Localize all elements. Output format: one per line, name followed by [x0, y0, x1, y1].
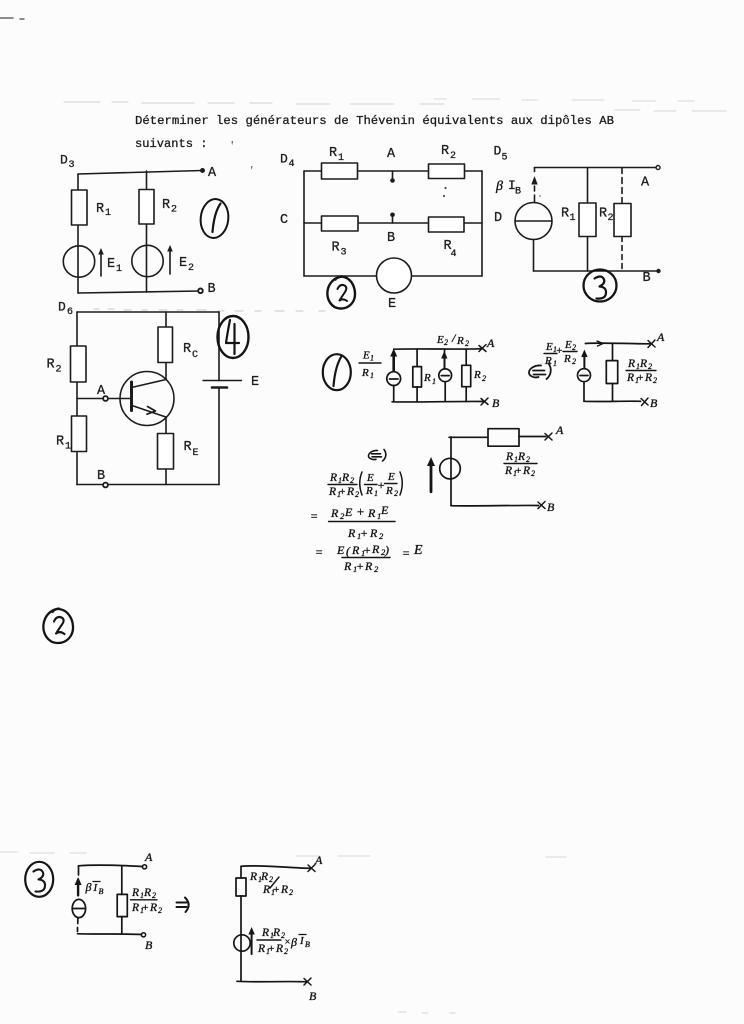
svg-text:+: + — [356, 559, 364, 573]
svg-text:R: R — [473, 369, 481, 381]
svg-text:E: E — [545, 341, 553, 353]
svg-text:+: + — [356, 504, 365, 519]
svg-text:2: 2 — [572, 357, 576, 366]
source circle — [440, 458, 461, 479]
label beta IB — [495, 178, 521, 198]
circled 1 hw — [323, 354, 351, 390]
svg-text:A: A — [387, 147, 396, 162]
svg-text:R: R — [644, 372, 652, 384]
svg-text:R: R — [627, 358, 635, 370]
terminal B — [538, 502, 545, 509]
wire right D4 — [481, 171, 483, 276]
wire top D3 — [78, 171, 202, 175]
wire bottom D4 — [304, 275, 482, 277]
svg-text:2: 2 — [608, 213, 614, 224]
(=) — [368, 450, 385, 462]
svg-text:+: + — [637, 372, 644, 384]
resistor R2 — [139, 190, 154, 225]
svg-text:R: R — [260, 871, 268, 883]
svg-text:R: R — [272, 927, 280, 939]
svg-text:E: E — [387, 471, 395, 483]
svg-text:2: 2 — [289, 888, 293, 897]
right circuit: wire bottom — [237, 980, 306, 983]
svg-text:B: B — [97, 469, 105, 484]
svg-text:1: 1 — [105, 208, 111, 219]
current source D — [515, 203, 552, 240]
eq line 2 — [310, 503, 389, 541]
svg-text:1: 1 — [338, 153, 344, 164]
svg-text:B: B — [492, 396, 500, 410]
resistor R2 — [429, 164, 465, 179]
svg-text:R: R — [385, 485, 393, 497]
svg-text:R: R — [367, 506, 376, 520]
svg-text:E: E — [336, 543, 345, 557]
circled 4 (D6) — [218, 316, 249, 358]
wire bottom D5 — [534, 270, 659, 272]
svg-text:2: 2 — [379, 531, 384, 541]
svg-text:B: B — [643, 271, 651, 286]
svg-text:1: 1 — [116, 264, 122, 275]
svg-text:1: 1 — [65, 442, 71, 453]
svg-text:+: + — [363, 543, 371, 557]
wire left vertical — [450, 437, 452, 506]
wire bottom D3 — [78, 291, 200, 293]
svg-text:B: B — [305, 940, 310, 949]
terminal A (open) — [656, 166, 660, 170]
svg-text:2: 2 — [531, 469, 535, 478]
svg-text:2: 2 — [269, 875, 273, 884]
label D — [494, 211, 502, 226]
svg-text:2: 2 — [171, 205, 177, 216]
svg-text:+: + — [273, 884, 280, 896]
wire below source — [533, 240, 535, 272]
svg-text:D: D — [60, 153, 68, 168]
svg-text:D: D — [280, 152, 288, 167]
svg-text:=: = — [310, 509, 318, 523]
svg-text:4: 4 — [289, 159, 295, 170]
left circuit: resistor branch — [121, 866, 123, 934]
svg-text:2: 2 — [284, 947, 288, 956]
svg-text:R: R — [599, 207, 607, 222]
terminal A — [545, 433, 552, 440]
resistor R2 — [71, 346, 87, 382]
wire left branch D3 — [77, 174, 79, 293]
wire top hw2 — [585, 342, 650, 345]
label D5 — [494, 144, 508, 164]
svg-text:E: E — [179, 256, 187, 271]
terminal A — [200, 168, 205, 173]
svg-text:R: R — [561, 207, 569, 222]
svg-text:E: E — [362, 350, 370, 362]
bold arrow — [430, 461, 433, 492]
svg-text:2: 2 — [56, 365, 62, 376]
svg-text:R: R — [544, 355, 552, 367]
svg-text:R: R — [249, 871, 257, 883]
resistor RC — [158, 327, 173, 363]
svg-text:+: + — [268, 943, 275, 955]
collector wire — [165, 312, 167, 380]
wire middle branch D3 — [146, 171, 148, 292]
wire bottom hw2 — [584, 400, 641, 402]
svg-text:E: E — [413, 543, 423, 558]
svg-text:2: 2 — [188, 263, 194, 274]
wire bottom — [451, 504, 539, 507]
transistor Q — [120, 372, 174, 426]
label R1R2/R1+R2 — [504, 451, 535, 478]
svg-text:=: = — [402, 546, 410, 560]
circled 2 (D4) — [327, 276, 355, 308]
svg-text:R: R — [341, 472, 349, 484]
svg-text:B: B — [650, 396, 658, 410]
svg-text:2: 2 — [482, 374, 486, 383]
resistor R1 — [72, 416, 87, 452]
svg-text:E: E — [366, 472, 374, 484]
fraction E1/R1 + E2/R2 — [544, 339, 576, 368]
node B — [390, 213, 395, 218]
svg-text:β: β — [495, 179, 503, 194]
svg-text:R: R — [346, 486, 354, 498]
svg-text:B: B — [547, 500, 555, 514]
left circuit: source — [72, 899, 85, 917]
terminal B — [198, 289, 203, 294]
source E — [377, 258, 412, 293]
left circuit: arrow + beta IB — [78, 866, 80, 875]
eq line 1 — [328, 472, 359, 499]
resistor RE — [158, 434, 174, 470]
label D4 — [280, 152, 295, 171]
svg-text:A: A — [208, 166, 217, 181]
svg-text:2: 2 — [526, 455, 530, 464]
circled 1 (D3) — [199, 198, 231, 240]
svg-text:R: R — [639, 358, 647, 370]
wire top — [449, 436, 546, 439]
svg-text:2: 2 — [572, 343, 576, 352]
svg-text:R: R — [328, 486, 336, 498]
label C — [280, 213, 288, 228]
svg-text:B: B — [309, 989, 317, 1003]
label R1R2/R1+R2 — [626, 358, 657, 385]
svg-text:E: E — [388, 297, 396, 312]
resistor R4 — [429, 217, 465, 232]
svg-text:A: A — [656, 330, 665, 344]
arrow E1 — [100, 252, 102, 276]
svg-text:A: A — [641, 176, 650, 191]
svg-text:R: R — [280, 884, 288, 896]
ink specks — [232, 141, 541, 197]
label R1R2/R1+R2 x beta IB — [257, 927, 310, 956]
svg-text:3: 3 — [341, 248, 347, 259]
svg-text:5: 5 — [502, 153, 508, 164]
wire bottom hw1 — [392, 400, 485, 403]
node A — [392, 171, 394, 178]
svg-text:6: 6 — [67, 307, 73, 318]
fraction E1/R1 — [361, 350, 374, 381]
svg-text:B: B — [515, 187, 521, 198]
resistor R1 — [72, 190, 88, 225]
wire left D4 — [303, 171, 305, 276]
svg-text:+: + — [360, 526, 368, 540]
circled 2 standalone — [43, 609, 73, 644]
svg-text:C: C — [280, 213, 288, 228]
svg-text:R: R — [343, 559, 352, 573]
left circuit: wire bottom — [78, 933, 142, 936]
branch R1 — [587, 168, 589, 272]
circled 3 (D5) — [584, 270, 617, 302]
svg-text:=: = — [315, 545, 323, 559]
svg-text:R: R — [262, 884, 270, 896]
svg-text:R: R — [626, 372, 634, 384]
wire right D6 — [218, 312, 220, 485]
svg-text:E: E — [564, 339, 572, 351]
emitter wire — [165, 417, 167, 485]
implies arrow — [177, 903, 187, 908]
svg-text:R: R — [183, 342, 191, 357]
eq line 3 — [315, 542, 423, 574]
svg-text:2: 2 — [648, 362, 652, 371]
resistor — [488, 429, 519, 447]
svg-text:β: β — [85, 880, 92, 894]
source with arrow — [583, 353, 585, 369]
terminal B — [656, 269, 660, 273]
svg-text:2: 2 — [374, 564, 379, 574]
svg-text:D: D — [494, 144, 502, 159]
(=) sign — [529, 364, 551, 380]
svg-text:2: 2 — [152, 891, 156, 900]
resistor hw2 — [612, 344, 614, 402]
wire top D5 — [535, 167, 657, 169]
wire top hw1 — [394, 348, 481, 350]
svg-text:R: R — [47, 358, 55, 373]
svg-text:1: 1 — [553, 359, 557, 368]
svg-text:R: R — [332, 241, 340, 256]
svg-text:R: R — [365, 485, 373, 497]
svg-text:E: E — [380, 503, 389, 517]
svg-text:A: A — [314, 853, 323, 867]
svg-text:E: E — [193, 448, 199, 459]
svg-text:+: + — [339, 486, 346, 498]
svg-text:1: 1 — [370, 354, 374, 363]
wire left D6 — [76, 312, 78, 485]
svg-text:R: R — [149, 902, 157, 914]
arrow E2 — [169, 249, 171, 274]
svg-text:R: R — [143, 887, 151, 899]
svg-text:R: R — [371, 542, 380, 556]
svg-text:R: R — [96, 202, 104, 217]
label D3 — [60, 153, 75, 172]
wire top D6 — [77, 311, 219, 313]
scan artifacts middle/bottom — [0, 309, 566, 1013]
svg-text:): ) — [384, 543, 389, 557]
svg-text:D: D — [58, 300, 66, 315]
svg-text:2: 2 — [350, 476, 354, 485]
svg-text:1: 1 — [432, 377, 436, 386]
svg-text:R: R — [162, 198, 170, 213]
label D6 — [58, 300, 73, 319]
svg-text:E: E — [344, 505, 353, 519]
svg-text:A: A — [555, 423, 564, 437]
svg-text:3: 3 — [69, 160, 75, 171]
source 2 with arrow — [444, 354, 446, 368]
resistor R3 — [322, 216, 359, 231]
svg-text:R: R — [522, 465, 530, 477]
svg-text:1: 1 — [370, 371, 374, 380]
svg-text:B: B — [208, 282, 216, 297]
resistor R1 hw — [416, 349, 418, 401]
wire bottom D6 — [77, 484, 219, 486]
node B — [103, 483, 108, 488]
svg-text:+: + — [515, 465, 522, 477]
left circuit: wire top — [79, 865, 143, 866]
svg-text:E: E — [436, 334, 444, 346]
wire middle D4 — [304, 222, 482, 224]
svg-text:R: R — [347, 526, 356, 540]
svg-text:Déterminer les générateurs de: Déterminer les générateurs de Thévenin é… — [135, 114, 614, 128]
svg-text:D: D — [494, 211, 502, 226]
svg-text:R: R — [423, 372, 431, 384]
scan artifacts top — [0, 18, 726, 111]
svg-text:R: R — [369, 526, 378, 540]
label E2/R2 — [436, 331, 469, 348]
svg-text:R: R — [364, 559, 373, 573]
svg-text:R: R — [441, 144, 449, 159]
svg-text:R: R — [257, 943, 265, 955]
svg-text:R: R — [517, 451, 525, 463]
branch R2 (dashed leads) — [621, 168, 623, 204]
svg-text:B: B — [99, 887, 104, 896]
circled 3 — [25, 862, 53, 897]
svg-text:2: 2 — [355, 490, 359, 499]
svg-text:R: R — [456, 335, 464, 347]
node A wire — [77, 398, 132, 400]
svg-text:R: R — [56, 435, 64, 450]
svg-text:R: R — [330, 506, 339, 520]
resistor R1 — [322, 163, 358, 179]
label R1R2/R1+R2 — [131, 887, 162, 915]
svg-text:E: E — [107, 257, 115, 272]
svg-text:R: R — [131, 887, 139, 899]
svg-text:+: + — [142, 902, 149, 914]
svg-text:2: 2 — [450, 151, 456, 162]
svg-text:1: 1 — [570, 213, 576, 224]
svg-text:4: 4 — [451, 249, 457, 260]
right circuit: wire + source — [240, 896, 242, 981]
svg-text:×: × — [284, 937, 291, 948]
svg-text:A: A — [97, 384, 106, 399]
svg-text:E: E — [251, 375, 259, 390]
svg-text:C: C — [192, 350, 198, 361]
wire top D4 — [304, 170, 482, 172]
svg-text:2: 2 — [465, 339, 469, 348]
source E2 — [132, 245, 163, 276]
svg-text:R: R — [563, 353, 571, 365]
svg-text:B: B — [145, 938, 153, 952]
svg-text:2: 2 — [158, 906, 162, 915]
svg-text:R: R — [261, 927, 269, 939]
svg-text:R: R — [505, 451, 513, 463]
svg-text:A: A — [486, 336, 495, 350]
svg-text:+: + — [377, 478, 385, 492]
svg-text:2: 2 — [444, 338, 448, 347]
svg-text:R: R — [184, 440, 192, 455]
source 1 with arrow — [392, 352, 395, 371]
svg-text:suivants :: suivants : — [135, 137, 208, 151]
svg-text:R: R — [329, 472, 337, 484]
svg-text:R: R — [504, 465, 512, 477]
right circuit: wire top — [241, 866, 310, 869]
svg-text:R: R — [329, 146, 337, 161]
svg-text:R: R — [361, 367, 369, 379]
source E1 — [63, 246, 94, 277]
right circuit: resistor — [240, 866, 242, 878]
svg-text:(: ( — [346, 544, 351, 558]
resistor R2 hw — [465, 349, 467, 401]
svg-text:R: R — [275, 943, 283, 955]
battery E — [203, 380, 242, 382]
svg-text:R: R — [351, 543, 360, 557]
svg-text:R: R — [131, 902, 139, 914]
svg-text:β: β — [290, 935, 297, 949]
svg-text:A: A — [144, 850, 153, 864]
svg-text:+: + — [556, 345, 563, 357]
arrow into source — [534, 168, 536, 203]
svg-text:2: 2 — [394, 489, 398, 498]
svg-text:B: B — [387, 231, 395, 246]
svg-text:2: 2 — [653, 376, 657, 385]
